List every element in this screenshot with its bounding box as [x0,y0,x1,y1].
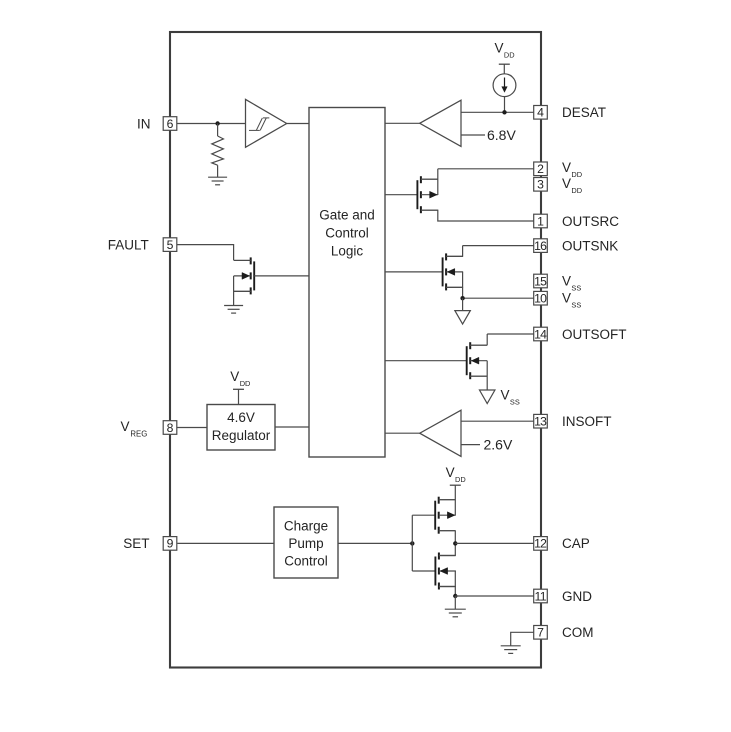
svg-text:4: 4 [537,106,544,120]
pin 6 wire IN to schmitt [177,123,246,125]
svg-text:V: V [121,419,130,434]
svg-text:Charge: Charge [284,519,328,534]
pin 3 [534,178,548,192]
svg-text:Pump: Pump [288,536,323,551]
wire logic to Q3 gate [385,360,467,362]
wire pin 5 to Q4 drain [177,245,234,261]
pin 7 [534,626,548,640]
transistor Q2 [443,253,464,290]
svg-text:9: 9 [167,537,174,551]
ground (charge pump) [445,609,466,617]
svg-text:11: 11 [535,589,547,603]
wire current source to DESAT node [504,97,506,113]
svg-text:INSOFT: INSOFT [562,414,612,429]
wire charge pump output to gate bus [338,542,412,544]
label VSS (pin 10) [562,291,581,310]
pin 8 [163,421,177,435]
pin 12 [534,537,548,551]
svg-text:1: 1 [537,214,544,228]
svg-text:V: V [501,388,510,403]
label IN [137,116,151,131]
wire Q3 source down [470,361,487,390]
pin 6 [163,117,177,131]
wire Q5 gate stub [412,514,435,516]
label OUTSRC [562,214,619,229]
comparator U6 (INSOFT 2.6V) [385,410,461,456]
node DESAT junction [502,110,506,114]
wire Q4 source to ground [234,276,251,306]
svg-text:REG: REG [130,430,147,439]
label VSS (Q3) [501,388,520,407]
wire GND node to ground [454,596,456,609]
wire Q3 drain to pin 14 OUTSOFT [470,334,534,345]
pin 9 [163,537,177,551]
wire pin 9 SET to charge pump block [177,542,274,544]
pin 13 [534,414,548,428]
svg-text:FAULT: FAULT [108,237,149,252]
node gate bus junction [410,541,414,545]
reference 2.6V [461,437,513,453]
svg-text:16: 16 [534,239,547,253]
svg-text:15: 15 [534,274,547,288]
power VDD (regulator) [230,369,250,405]
wire pin 13 to comparator U6 [461,420,534,422]
wire CAP node to pin 12 [455,542,533,544]
pin 5 [163,238,177,252]
label VREG [121,419,148,438]
pin 4 [534,106,548,120]
svg-text:Logic: Logic [331,244,364,259]
ground VSS (open triangle, Q3) [479,390,495,404]
transistor Q5 [435,497,456,534]
node IN junction [215,121,219,125]
label VSS (pin 15) [562,274,581,293]
svg-text:Control: Control [284,554,328,569]
svg-text:V: V [562,160,571,175]
comparator U4 (DESAT 6.8V) [385,100,461,146]
wire regulator to logic block [275,426,309,428]
node Q2 source junction [460,296,464,300]
wire Q6 source to GND node [439,571,455,596]
label COM [562,625,594,640]
wire logic to Q1 gate [385,194,417,196]
label VDD (pin 3) [562,176,582,195]
pin 14 [534,327,548,341]
svg-text:DD: DD [240,379,251,388]
label SET [123,536,149,551]
node CAP junction [453,541,457,545]
pin 10 [534,291,548,305]
wire pin 8 to regulator [177,427,207,429]
svg-text:13: 13 [534,415,547,429]
svg-text:Regulator: Regulator [212,428,271,443]
label GND [562,589,592,604]
transistor Q6 [435,553,456,590]
wire GND node to pin 11 [455,595,533,597]
ground (COM) [501,646,521,654]
svg-text:V: V [230,369,239,384]
wire logic to Q2 gate [385,271,443,273]
ground (FAULT) [224,306,243,314]
pin 15 [534,274,548,288]
wire Q5 drain to VDD [439,500,456,516]
label DESAT [562,105,606,120]
svg-text:OUTSNK: OUTSNK [562,238,618,253]
power VDD (current source supply) [495,41,515,74]
wire schmitt output to logic block [287,123,309,125]
svg-text:SS: SS [571,301,581,310]
label INSOFT [562,414,612,429]
ground VSS (open triangle) [455,311,471,325]
svg-text:3: 3 [537,178,544,192]
schmitt buffer U5 [246,99,287,147]
svg-text:DD: DD [571,170,582,179]
svg-text:SET: SET [123,536,149,551]
wire comparator U4 output to pin 4 [461,111,534,113]
wire node to VSS arrow [462,298,464,310]
pin 2 [534,162,548,176]
svg-text:Gate and: Gate and [319,208,375,223]
svg-text:V: V [495,41,504,56]
svg-text:2: 2 [537,162,544,176]
wire IN node to resistor [217,124,219,137]
wire gate bus vertical [411,515,413,571]
pin 11 [534,589,548,603]
svg-text:6: 6 [167,117,174,131]
node GND junction [453,594,457,598]
current source I1 [493,74,516,97]
svg-text:DD: DD [504,51,515,60]
wire Q1 source to pin 1 OUTSRC [421,210,534,221]
transistor Q4 (FAULT) [234,257,255,294]
svg-text:2.6V: 2.6V [484,437,513,453]
label OUTSNK [562,238,618,253]
svg-text:7: 7 [537,626,544,640]
wire Q2 drain to pin 16 OUTSNK [446,246,534,257]
wire Q5 source to CAP node [439,531,456,556]
svg-text:IN: IN [137,116,151,131]
ground (IN pulldown) [208,177,227,185]
svg-text:V: V [446,465,455,480]
svg-text:10: 10 [534,292,547,306]
svg-text:V: V [562,176,571,191]
reference 6.8V [461,127,516,143]
svg-text:V: V [562,274,571,289]
wire Q1 drain rail to pin 2 [421,169,534,195]
svg-text:OUTSOFT: OUTSOFT [562,327,627,342]
power VDD (charge pump) [446,465,466,500]
wire Q6 drain stub [439,555,455,557]
resistor R1 [212,136,224,165]
svg-text:Control: Control [325,226,369,241]
transistor Q3 [467,342,488,379]
svg-text:DD: DD [571,186,582,195]
label OUTSOFT [562,327,627,342]
label FAULT [108,237,149,252]
wire Q4 gate to logic block [254,275,309,277]
svg-text:OUTSRC: OUTSRC [562,214,619,229]
svg-text:8: 8 [167,421,174,435]
wire VSS node to pin 10 [463,297,534,299]
svg-text:5: 5 [167,238,174,252]
block U2 4.6V Regulator [207,405,275,451]
wire resistor to ground [217,165,219,177]
svg-text:6.8V: 6.8V [487,127,516,143]
svg-text:4.6V: 4.6V [227,410,255,425]
svg-text:COM: COM [562,625,594,640]
pin 16 [534,239,548,253]
svg-text:SS: SS [571,284,581,293]
svg-text:DESAT: DESAT [562,105,606,120]
svg-text:V: V [562,291,571,306]
IC boundary [170,32,541,668]
wire pin 7 COM to ground [511,632,534,646]
svg-text:DD: DD [455,475,466,484]
block U3 Charge Pump Control [274,507,338,578]
svg-text:14: 14 [534,327,547,341]
block U1 Gate and Control Logic [309,108,385,458]
label CAP [562,536,590,551]
pin 1 [534,214,548,228]
svg-text:GND: GND [562,589,592,604]
label VDD (pin 2) [562,160,582,179]
transistor Q1 [417,176,438,213]
svg-text:CAP: CAP [562,536,590,551]
wire Q6 gate stub [412,570,435,572]
wire Q2 source to VSS node [446,272,463,298]
svg-text:12: 12 [534,537,547,551]
svg-text:SS: SS [510,398,520,407]
